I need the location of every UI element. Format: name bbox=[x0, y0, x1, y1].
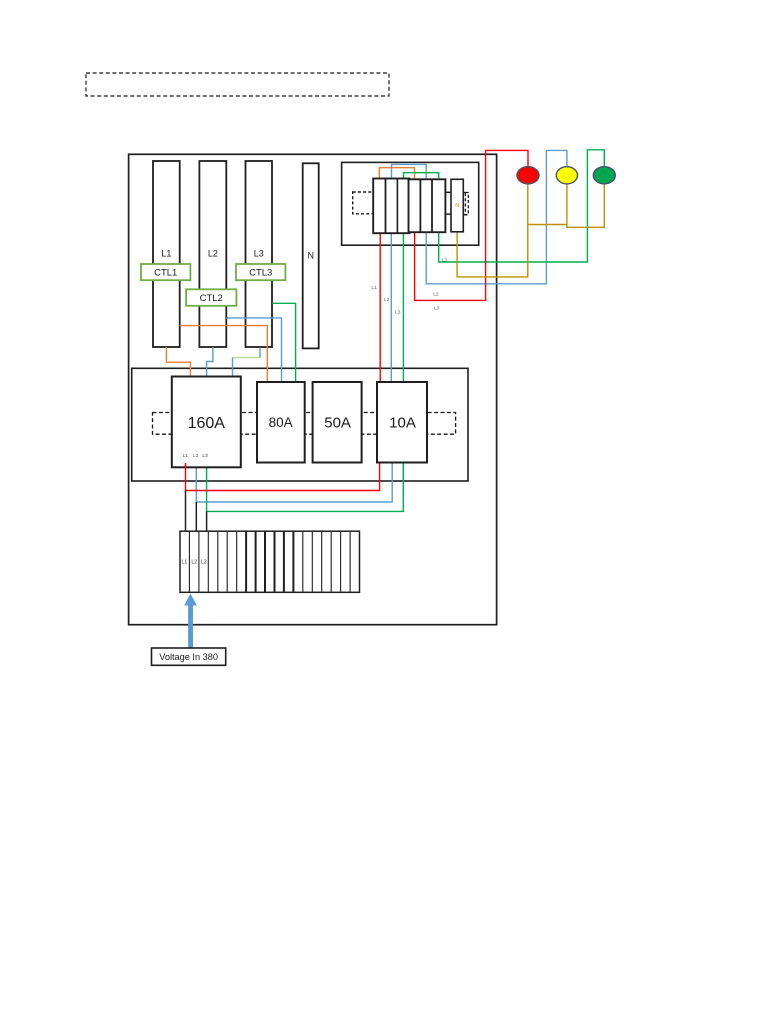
svg-text:L1: L1 bbox=[161, 249, 171, 259]
svg-text:80A: 80A bbox=[269, 415, 293, 430]
svg-text:L3: L3 bbox=[434, 306, 440, 312]
svg-text:Voltage In 380: Voltage In 380 bbox=[159, 652, 218, 662]
svg-text:N: N bbox=[455, 203, 459, 209]
svg-text:CTL1: CTL1 bbox=[154, 268, 177, 279]
svg-text:L3: L3 bbox=[442, 257, 448, 263]
svg-text:L1: L1 bbox=[183, 453, 189, 459]
svg-text:L1: L1 bbox=[371, 285, 377, 291]
svg-text:50A: 50A bbox=[324, 414, 351, 431]
svg-text:N: N bbox=[308, 251, 315, 261]
svg-text:160A: 160A bbox=[188, 415, 226, 432]
svg-text:L3: L3 bbox=[254, 249, 264, 259]
svg-text:L1: L1 bbox=[182, 559, 188, 565]
svg-text:10A: 10A bbox=[389, 414, 416, 431]
svg-text:L2: L2 bbox=[384, 297, 390, 303]
svg-text:L3: L3 bbox=[395, 309, 401, 315]
svg-text:L3: L3 bbox=[201, 559, 207, 565]
svg-text:L3: L3 bbox=[202, 453, 208, 459]
svg-text:CTL2: CTL2 bbox=[200, 293, 223, 304]
svg-text:L2: L2 bbox=[433, 292, 439, 298]
svg-text:CTL3: CTL3 bbox=[249, 268, 272, 279]
svg-text:L2: L2 bbox=[191, 559, 197, 565]
svg-text:L2: L2 bbox=[193, 453, 199, 459]
svg-text:L2: L2 bbox=[208, 249, 218, 259]
